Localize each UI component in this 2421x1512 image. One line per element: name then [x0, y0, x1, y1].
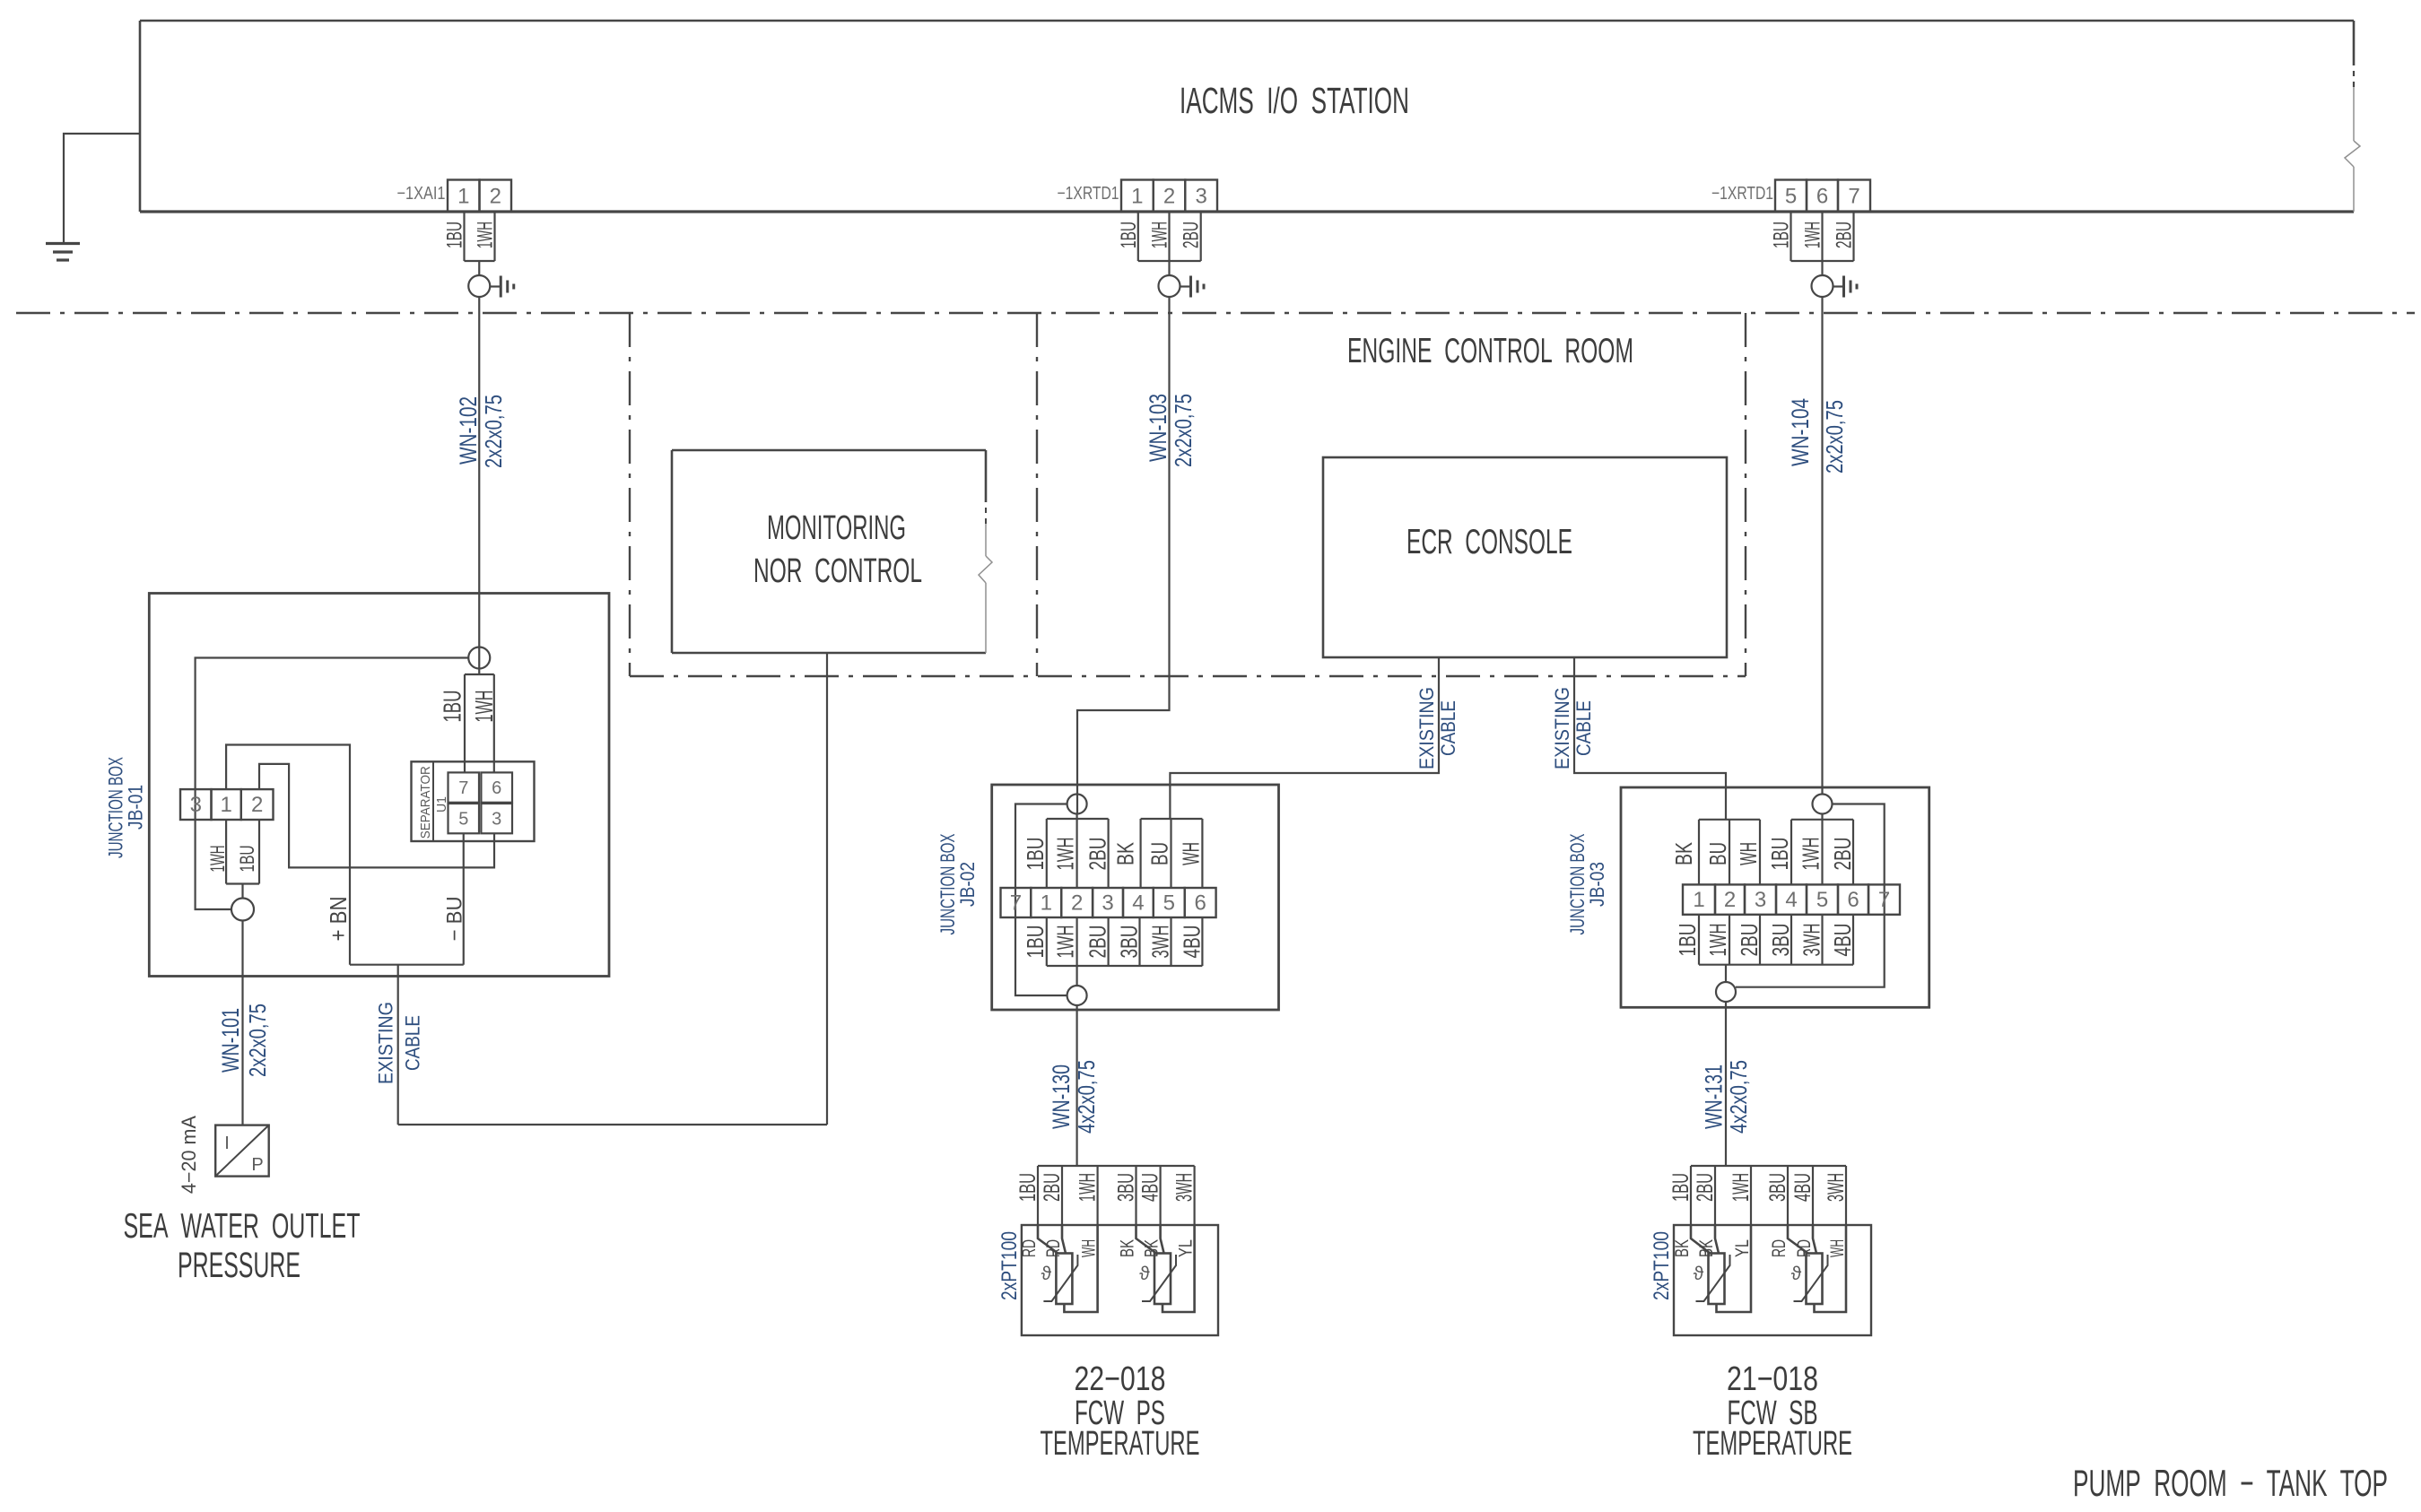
svg-text:22−018: 22−018 — [1074, 1360, 1165, 1398]
svg-text:2: 2 — [251, 793, 263, 817]
svg-text:3BU: 3BU — [1767, 924, 1794, 957]
svg-text:3: 3 — [492, 810, 501, 830]
svg-text:1WH: 1WH — [1704, 924, 1731, 957]
svg-text:WN-131: WN-131 — [1701, 1064, 1728, 1129]
svg-text:BK: BK — [1142, 1239, 1163, 1257]
svg-text:TEMPERATURE: TEMPERATURE — [1693, 1425, 1852, 1463]
svg-text:RD: RD — [1043, 1239, 1064, 1257]
svg-text:WN-130: WN-130 — [1048, 1064, 1075, 1129]
svg-text:WH: WH — [1079, 1239, 1100, 1257]
svg-text:2: 2 — [1071, 891, 1083, 916]
svg-text:2BU: 2BU — [1829, 838, 1856, 871]
svg-text:TEMPERATURE: TEMPERATURE — [1040, 1425, 1199, 1463]
svg-text:6: 6 — [492, 778, 501, 798]
svg-text:RD: RD — [1794, 1239, 1815, 1257]
svg-text:7: 7 — [1878, 888, 1890, 912]
svg-text:2BU: 2BU — [1180, 222, 1204, 248]
svg-text:2BU: 2BU — [1833, 222, 1857, 248]
svg-text:− BU: − BU — [443, 897, 467, 942]
svg-text:YL: YL — [1176, 1239, 1197, 1257]
svg-text:IACMS I/O STATION: IACMS I/O STATION — [1180, 80, 1409, 121]
svg-text:−1XRTD1: −1XRTD1 — [1058, 184, 1119, 204]
svg-text:5: 5 — [1163, 891, 1175, 916]
svg-text:2: 2 — [1163, 184, 1175, 208]
svg-text:4: 4 — [1132, 891, 1144, 916]
svg-text:SEA WATER OUTLET: SEA WATER OUTLET — [124, 1207, 361, 1246]
svg-text:WN-102: WN-102 — [455, 396, 482, 465]
svg-text:YL: YL — [1732, 1239, 1753, 1257]
svg-text:1WH: 1WH — [1052, 838, 1079, 871]
svg-text:3WH: 3WH — [1172, 1173, 1197, 1202]
svg-text:1BU: 1BU — [236, 846, 258, 873]
svg-text:3BU: 3BU — [1114, 1173, 1139, 1202]
svg-text:ϑ: ϑ — [1694, 1264, 1704, 1284]
svg-text:1WH: 1WH — [206, 846, 229, 873]
svg-text:BU: BU — [1146, 842, 1173, 865]
svg-text:3WH: 3WH — [1147, 925, 1174, 959]
svg-text:RD: RD — [1769, 1239, 1790, 1257]
svg-text:BK: BK — [1670, 842, 1697, 865]
svg-text:SEPARATOR: SEPARATOR — [418, 766, 433, 839]
svg-text:1: 1 — [1693, 888, 1704, 912]
svg-text:5: 5 — [458, 810, 468, 830]
svg-text:1WH: 1WH — [1801, 222, 1825, 248]
svg-text:JB-01: JB-01 — [125, 785, 147, 830]
svg-text:BK: BK — [1118, 1239, 1138, 1257]
svg-text:MONITORING: MONITORING — [767, 509, 906, 547]
svg-text:ϑ: ϑ — [1041, 1264, 1052, 1284]
svg-text:1BU: 1BU — [1022, 925, 1049, 959]
svg-text:WN-101: WN-101 — [217, 1008, 244, 1073]
svg-text:WN-103: WN-103 — [1145, 394, 1171, 462]
svg-text:BK: BK — [1672, 1239, 1693, 1257]
svg-text:CABLE: CABLE — [402, 1015, 424, 1071]
svg-text:NOR CONTROL: NOR CONTROL — [753, 552, 922, 590]
svg-text:4BU: 4BU — [1138, 1173, 1163, 1202]
svg-text:3WH: 3WH — [1798, 924, 1825, 957]
svg-text:1BU: 1BU — [1117, 222, 1141, 248]
svg-text:WN-104: WN-104 — [1787, 398, 1814, 466]
svg-text:3: 3 — [1755, 888, 1766, 912]
svg-text:1: 1 — [457, 184, 469, 208]
svg-text:4BU: 4BU — [1829, 924, 1856, 957]
svg-text:1BU: 1BU — [1770, 222, 1794, 248]
svg-text:−1XRTD1: −1XRTD1 — [1711, 184, 1773, 204]
svg-text:1WH: 1WH — [1148, 222, 1172, 248]
svg-text:1: 1 — [1131, 184, 1143, 208]
svg-text:1BU: 1BU — [443, 222, 467, 248]
svg-text:2BU: 2BU — [1040, 1173, 1065, 1202]
svg-text:5: 5 — [1785, 184, 1797, 208]
svg-text:I: I — [224, 1134, 230, 1153]
svg-text:EXISTING: EXISTING — [1551, 687, 1573, 769]
svg-text:CABLE: CABLE — [1437, 700, 1459, 756]
svg-text:CABLE: CABLE — [1572, 700, 1595, 756]
svg-text:1BU: 1BU — [1766, 838, 1793, 871]
svg-text:1BU: 1BU — [439, 691, 466, 723]
svg-text:2BU: 2BU — [1084, 925, 1111, 959]
svg-text:+ BN: + BN — [325, 897, 352, 942]
svg-text:BU: BU — [1704, 842, 1731, 865]
svg-text:4x2x0,75: 4x2x0,75 — [1725, 1060, 1752, 1134]
svg-text:6: 6 — [1816, 184, 1828, 208]
svg-text:RD: RD — [1019, 1239, 1040, 1257]
svg-text:4BU: 4BU — [1178, 925, 1205, 959]
svg-text:ϑ: ϑ — [1791, 1264, 1802, 1284]
svg-text:ECR CONSOLE: ECR CONSOLE — [1406, 523, 1572, 561]
svg-text:ϑ: ϑ — [1139, 1264, 1150, 1284]
svg-text:6: 6 — [1194, 891, 1206, 916]
svg-text:1BU: 1BU — [1022, 838, 1049, 871]
svg-text:1WH: 1WH — [1729, 1173, 1754, 1202]
svg-text:2x2x0,75: 2x2x0,75 — [1170, 394, 1197, 467]
svg-text:3: 3 — [1102, 891, 1113, 916]
svg-text:6: 6 — [1847, 888, 1859, 912]
svg-text:4x2x0,75: 4x2x0,75 — [1073, 1060, 1100, 1134]
svg-text:7: 7 — [1010, 891, 1022, 916]
svg-text:2x2x0,75: 2x2x0,75 — [1821, 400, 1848, 474]
svg-text:1BU: 1BU — [1674, 924, 1701, 957]
svg-text:3: 3 — [190, 793, 202, 817]
svg-text:2: 2 — [490, 184, 501, 208]
svg-text:PRESSURE: PRESSURE — [178, 1246, 300, 1285]
svg-text:1WH: 1WH — [474, 222, 498, 248]
svg-text:2BU: 2BU — [1693, 1173, 1718, 1202]
svg-text:21−018: 21−018 — [1727, 1360, 1818, 1398]
svg-text:7: 7 — [1848, 184, 1859, 208]
svg-text:P: P — [251, 1155, 263, 1175]
svg-text:ENGINE CONTROL ROOM: ENGINE CONTROL ROOM — [1347, 332, 1633, 370]
svg-text:−1XAI1: −1XAI1 — [397, 184, 446, 204]
svg-text:3: 3 — [1195, 184, 1206, 208]
svg-text:4−20 mA: 4−20 mA — [178, 1116, 200, 1194]
svg-text:4: 4 — [1785, 888, 1797, 912]
svg-text:3BU: 3BU — [1116, 925, 1143, 959]
svg-text:EXISTING: EXISTING — [1415, 687, 1438, 769]
svg-text:BK: BK — [1112, 842, 1139, 865]
svg-text:1: 1 — [220, 793, 231, 817]
svg-text:EXISTING: EXISTING — [375, 1002, 397, 1084]
svg-text:2xPT100: 2xPT100 — [1650, 1231, 1674, 1300]
svg-text:WH: WH — [1735, 842, 1762, 865]
svg-text:2xPT100: 2xPT100 — [997, 1231, 1022, 1300]
svg-text:3BU: 3BU — [1765, 1173, 1790, 1202]
svg-text:5: 5 — [1816, 888, 1828, 912]
svg-text:1WH: 1WH — [1076, 1173, 1101, 1202]
svg-text:JB-03: JB-03 — [1586, 862, 1608, 907]
svg-text:PUMP ROOM − TANK TOP: PUMP ROOM − TANK TOP — [2073, 1462, 2388, 1504]
svg-text:JB-02: JB-02 — [956, 862, 979, 907]
svg-text:1WH: 1WH — [1798, 838, 1824, 871]
svg-text:2: 2 — [1724, 888, 1736, 912]
svg-text:1: 1 — [1041, 891, 1052, 916]
svg-text:4BU: 4BU — [1790, 1173, 1816, 1202]
svg-text:2x2x0,75: 2x2x0,75 — [244, 1004, 271, 1077]
svg-text:3WH: 3WH — [1824, 1173, 1849, 1202]
svg-text:WH: WH — [1827, 1239, 1848, 1257]
svg-text:1BU: 1BU — [1015, 1173, 1041, 1202]
svg-text:2BU: 2BU — [1084, 838, 1111, 871]
svg-text:BK: BK — [1696, 1239, 1717, 1257]
svg-text:1WH: 1WH — [470, 691, 498, 723]
svg-text:7: 7 — [458, 778, 468, 798]
svg-text:2BU: 2BU — [1736, 924, 1763, 957]
svg-text:WH: WH — [1177, 842, 1204, 865]
svg-text:2x2x0,75: 2x2x0,75 — [480, 395, 507, 468]
svg-text:1WH: 1WH — [1052, 925, 1079, 959]
svg-text:1BU: 1BU — [1668, 1173, 1694, 1202]
